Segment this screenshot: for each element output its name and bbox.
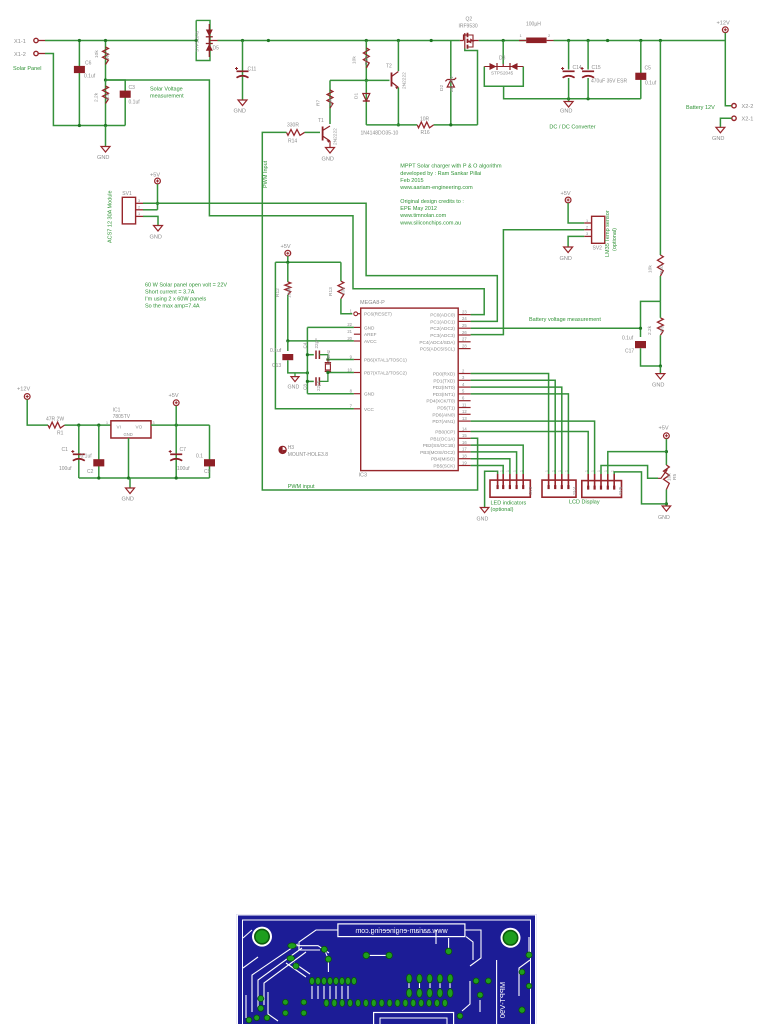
- svg-text:14: 14: [462, 426, 467, 431]
- svg-text:C9: C9: [204, 469, 211, 475]
- capacitor C8: [307, 380, 313, 382]
- svg-text:GND: GND: [652, 383, 664, 389]
- svg-text:GND: GND: [322, 157, 334, 163]
- svg-text:D3: D3: [499, 56, 506, 62]
- svg-text:PD3(INT1): PD3(INT1): [433, 392, 456, 397]
- svg-text:C1: C1: [62, 447, 69, 453]
- resistor R15: [365, 41, 367, 81]
- svg-text:PB6(XTAL1/TOSC1): PB6(XTAL1/TOSC1): [364, 358, 407, 363]
- svg-text:1: 1: [138, 212, 140, 216]
- svg-text:100µH: 100µH: [526, 22, 541, 28]
- svg-text:Short current = 3.7A: Short current = 3.7A: [145, 290, 195, 296]
- wire IC1 gnd: [128, 438, 130, 478]
- svg-text:X1-1: X1-1: [14, 39, 26, 45]
- svg-text:13: 13: [462, 416, 467, 421]
- svg-text:PD1(TXD): PD1(TXD): [433, 378, 455, 383]
- svg-text:23: 23: [462, 309, 467, 314]
- svg-text:PC1(ADC1): PC1(ADC1): [430, 319, 455, 324]
- connector X1-1: [34, 38, 38, 42]
- svg-text:1: 1: [558, 470, 562, 472]
- connector SV5 LCD B: [582, 481, 622, 498]
- svg-text:PC5(ADC5/SCL): PC5(ADC5/SCL): [420, 347, 456, 352]
- svg-text:2.2k: 2.2k: [94, 92, 100, 102]
- svg-text:PB0(ICP): PB0(ICP): [435, 430, 455, 435]
- svg-text:1: 1: [506, 470, 510, 472]
- svg-text:GND: GND: [364, 392, 375, 397]
- resistor R7: [329, 80, 331, 124]
- svg-text:X2-1: X2-1: [742, 117, 754, 123]
- wire ADC2 net: [471, 327, 641, 329]
- capacitor C5: [640, 41, 642, 99]
- svg-text:PD4(XCK/T0): PD4(XCK/T0): [426, 399, 455, 404]
- svg-text:GND: GND: [364, 325, 375, 330]
- svg-text:Q2: Q2: [466, 16, 473, 22]
- ground dcdc: [568, 99, 570, 102]
- diode D1: [365, 80, 367, 125]
- wire pin8 gnd: [307, 393, 354, 395]
- connector X2-1: [732, 116, 736, 120]
- svg-text:R15: R15: [364, 56, 370, 65]
- svg-text:2: 2: [586, 226, 588, 230]
- svg-text:100uf: 100uf: [177, 466, 190, 472]
- wire R13 to reset pin1: [341, 299, 352, 314]
- svg-text:PB1(OC1A): PB1(OC1A): [430, 436, 455, 441]
- svg-text:So the max amp=7.4A: So the max amp=7.4A: [145, 304, 200, 310]
- wire +5V to R5: [665, 439, 667, 465]
- svg-text:+5V: +5V: [169, 393, 179, 399]
- svg-text:PC3(ADC3): PC3(ADC3): [430, 333, 455, 338]
- wire SV1 pin2: [143, 209, 158, 211]
- svg-text:SV5: SV5: [618, 486, 623, 495]
- resistor R14: [305, 131, 321, 133]
- resistor R16: [417, 122, 433, 128]
- wire PD2 to LCD: [471, 387, 562, 474]
- svg-text:IRF9530: IRF9530: [459, 23, 478, 29]
- svg-text:R20: R20: [659, 265, 665, 274]
- svg-text:25: 25: [462, 323, 467, 328]
- svg-text:2.2k: 2.2k: [647, 325, 653, 335]
- capacitor C17: [635, 341, 646, 348]
- svg-text:10: 10: [347, 367, 352, 372]
- svg-text:22pF: 22pF: [314, 338, 319, 349]
- suppressor D5: [196, 20, 210, 60]
- zener D2: [450, 41, 452, 125]
- svg-text:1: 1: [494, 470, 498, 472]
- svg-text:20: 20: [347, 336, 352, 341]
- wire PD0 to LCD: [471, 374, 549, 475]
- svg-text:26: 26: [462, 330, 467, 335]
- svg-text:MOUNT-HOLE3.8: MOUNT-HOLE3.8: [288, 452, 329, 458]
- svg-text:(optional): (optional): [612, 228, 618, 251]
- wire PWM net: [262, 132, 477, 490]
- svg-text:Battery 12V: Battery 12V: [686, 105, 715, 111]
- svg-text:1: 1: [584, 470, 588, 472]
- svg-text:STPS2045: STPS2045: [491, 71, 514, 76]
- connector SV1: [122, 197, 135, 224]
- svg-text:PD6(AIN0): PD6(AIN0): [432, 412, 455, 417]
- svg-text:10k: 10k: [666, 473, 672, 481]
- MEGA8 right pins: [458, 314, 470, 316]
- wire battery sense: [659, 41, 661, 256]
- svg-text:C6: C6: [85, 61, 92, 67]
- svg-text:(optional): (optional): [491, 507, 514, 513]
- svg-text:1: 1: [545, 470, 549, 472]
- svg-text:PC0(ADC0): PC0(ADC0): [430, 313, 455, 318]
- svg-text:GND: GND: [124, 432, 133, 437]
- capacitor C9: [209, 425, 211, 478]
- potentiometer R5: [664, 465, 670, 490]
- svg-text:Solar Voltage: Solar Voltage: [150, 87, 183, 93]
- wire net ADC0: [106, 80, 485, 315]
- svg-text:www.aariam-engineering.com: www.aariam-engineering.com: [355, 928, 448, 935]
- svg-text:15: 15: [462, 433, 467, 438]
- svg-text:22: 22: [347, 322, 352, 327]
- ground LED: [480, 508, 489, 513]
- svg-text:D5: D5: [213, 46, 220, 52]
- wire VCC left rail: [275, 262, 354, 409]
- svg-text:PD5(T1): PD5(T1): [437, 406, 455, 411]
- wire T2 emitter: [397, 88, 399, 125]
- svg-text:100R: 100R: [287, 286, 293, 298]
- svg-text:24: 24: [462, 316, 467, 321]
- svg-text:IC3: IC3: [359, 473, 368, 479]
- connector X1-2: [34, 51, 38, 55]
- svg-text:1: 1: [551, 470, 555, 472]
- svg-text:PC4(ADC4/SDA): PC4(ADC4/SDA): [419, 340, 455, 345]
- svg-text:H3: H3: [288, 445, 295, 451]
- wire bus 2: [218, 40, 460, 42]
- ground SV2: [564, 247, 573, 253]
- svg-text:10R: 10R: [420, 117, 430, 123]
- svg-text:+5V: +5V: [150, 173, 160, 179]
- wire SV1 pin1 gnd: [143, 216, 158, 225]
- resistor R20: [658, 255, 664, 276]
- svg-text:C8: C8: [303, 384, 308, 390]
- wire battery branch: [725, 41, 731, 106]
- svg-text:www.aariam-engineering.com: www.aariam-engineering.com: [399, 185, 473, 191]
- svg-text:SV4: SV4: [572, 486, 577, 495]
- svg-text:10k: 10k: [341, 287, 347, 295]
- svg-text:0.1uf: 0.1uf: [129, 100, 141, 106]
- transistor T2: [397, 41, 399, 72]
- svg-text:MPPT Solar charger with P & O: MPPT Solar charger with P & O algorithm: [400, 164, 502, 170]
- wire LED gnd jog: [485, 471, 498, 507]
- svg-text:C4: C4: [303, 342, 308, 348]
- svg-text:1: 1: [519, 470, 523, 472]
- wire +5V rail: [287, 256, 289, 262]
- capacitor C13: [287, 341, 289, 351]
- svg-text:0.1uf: 0.1uf: [84, 74, 96, 80]
- svg-text:PC2(ADC2): PC2(ADC2): [430, 326, 455, 331]
- wire output bus: [554, 40, 726, 42]
- svg-text:GND: GND: [477, 517, 489, 523]
- svg-text:17: 17: [462, 447, 467, 452]
- svg-text:X2-2: X2-2: [742, 104, 754, 110]
- ground divider: [105, 126, 107, 147]
- svg-text:0.1: 0.1: [196, 454, 203, 460]
- ground R5: [662, 506, 671, 511]
- svg-text:1: 1: [499, 470, 503, 472]
- svg-text:PB4(MISO): PB4(MISO): [431, 457, 455, 462]
- svg-text:10k: 10k: [94, 50, 100, 58]
- svg-text:1: 1: [106, 421, 108, 425]
- svg-text:R5: R5: [672, 474, 678, 480]
- svg-text:R7: R7: [316, 100, 322, 106]
- svg-text:28: 28: [462, 343, 467, 348]
- svg-text:GND: GND: [712, 136, 724, 142]
- wire PD3 to LCD: [471, 394, 569, 474]
- svg-text:PB2(SS/OC1B): PB2(SS/OC1B): [423, 443, 456, 448]
- resistor R4: [105, 80, 107, 126]
- svg-text:I'm using 2 x 60W panels: I'm using 2 x 60W panels: [145, 297, 207, 303]
- svg-text:SV3: SV3: [528, 486, 533, 495]
- svg-text:D1: D1: [354, 93, 360, 99]
- wire SV2 pin3 gnd: [568, 236, 584, 247]
- svg-text:C14: C14: [573, 65, 582, 71]
- svg-text:PWM Input: PWM Input: [263, 160, 269, 188]
- wire LCD gnd: [614, 472, 666, 504]
- wire pin10: [328, 372, 354, 374]
- svg-text:EPE May 2012: EPE May 2012: [400, 206, 437, 212]
- svg-text:27: 27: [462, 337, 467, 342]
- svg-text:21: 21: [347, 329, 352, 334]
- wire PB5 to LED: [471, 466, 504, 475]
- svg-text:16: 16: [462, 440, 467, 445]
- svg-text:PC6(RESET): PC6(RESET): [364, 312, 392, 317]
- svg-text:0.1uf: 0.1uf: [270, 348, 282, 354]
- node divider: [104, 78, 107, 81]
- svg-text:7805TV: 7805TV: [113, 414, 131, 420]
- svg-text:GND: GND: [122, 497, 134, 503]
- svg-text:VI: VI: [117, 424, 121, 429]
- svg-text:3: 3: [586, 232, 588, 236]
- svg-text:C2: C2: [87, 469, 94, 475]
- svg-text:GND: GND: [97, 155, 109, 161]
- transistor T1: [322, 127, 324, 141]
- svg-text:47R 2W: 47R 2W: [46, 416, 64, 422]
- svg-text:PD0(RXD): PD0(RXD): [433, 372, 456, 377]
- resistor R12: [287, 262, 289, 282]
- svg-text:R12: R12: [275, 288, 281, 297]
- svg-text:+5V: +5V: [281, 244, 291, 250]
- svg-text:+12V: +12V: [717, 20, 730, 26]
- svg-text:0.1uf: 0.1uf: [622, 336, 634, 342]
- svg-text:R2: R2: [105, 53, 111, 59]
- ground reg: [129, 478, 131, 488]
- wire PD1 to LCD: [471, 380, 556, 474]
- wire SV2 pin2 ADC3 net: [471, 230, 585, 335]
- svg-text:2: 2: [138, 206, 140, 210]
- svg-text:R14: R14: [288, 139, 297, 145]
- svg-text:470uF 35V ESR: 470uF 35V ESR: [591, 79, 628, 85]
- capacitor C1: [78, 425, 80, 478]
- svg-text:GND: GND: [234, 109, 246, 115]
- wire +5V to LCD: [608, 452, 667, 474]
- svg-text:PD7(AIN1): PD7(AIN1): [432, 419, 455, 424]
- wire PD7 to LCD2: [471, 421, 595, 474]
- wire PB3 to LED: [471, 452, 517, 474]
- svg-text:T1: T1: [318, 118, 324, 124]
- wire reg bottom rail: [79, 477, 210, 479]
- svg-text:+5V: +5V: [659, 426, 669, 432]
- wire PB2 to LED: [471, 445, 524, 474]
- svg-text:3: 3: [138, 199, 140, 203]
- svg-text:+12V: +12V: [17, 387, 30, 393]
- IC IC3 MEGA8-P: [361, 308, 459, 471]
- wire AVCC net: [288, 340, 354, 342]
- wire PB0 to LCD2: [471, 432, 589, 475]
- svg-text:ZD 18V: ZD 18V: [449, 75, 455, 92]
- svg-text:VO: VO: [136, 424, 143, 429]
- ground divider: [659, 366, 661, 374]
- ground C13: [294, 373, 296, 377]
- PCB layout image: [237, 914, 537, 1024]
- svg-text:R4: R4: [105, 94, 111, 100]
- svg-text:GND: GND: [288, 385, 300, 391]
- svg-text:Original design credits to :: Original design credits to :: [400, 199, 464, 205]
- svg-text:ACS7 12 30A Module: ACS7 12 30A Module: [108, 190, 114, 243]
- node battery divider: [641, 301, 661, 337]
- svg-text:MPPT-V90: MPPT-V90: [498, 982, 507, 1018]
- svg-text:1N4148DO35-10: 1N4148DO35-10: [361, 131, 399, 137]
- svg-text:D2: D2: [439, 85, 445, 91]
- mount hole H3: [279, 446, 286, 453]
- svg-text:1: 1: [586, 219, 588, 223]
- svg-text:T2: T2: [386, 64, 392, 70]
- resistor R1: [48, 422, 65, 428]
- svg-text:1: 1: [513, 470, 517, 472]
- wire SV1 pin3 ADC1 net: [143, 203, 497, 321]
- svg-text:PWM input: PWM input: [288, 484, 315, 490]
- svg-text:developed by : Ram Sankar Pill: developed by : Ram Sankar Pillai: [400, 171, 481, 177]
- svg-text:C3: C3: [129, 85, 136, 91]
- wire +5V to SV1: [157, 184, 159, 210]
- wire +5V SV2: [568, 203, 584, 223]
- wire X1-2 to bottom rail: [45, 54, 125, 126]
- svg-text:PB7(XTAL2/TOSC2): PB7(XTAL2/TOSC2): [364, 371, 407, 376]
- svg-text:X1-2: X1-2: [14, 52, 26, 58]
- svg-text:C7: C7: [180, 447, 187, 453]
- capacitor C3: [106, 80, 126, 126]
- svg-text:2N2222: 2N2222: [333, 128, 339, 145]
- connector SV3 LED indicators: [490, 480, 530, 497]
- pin1 bubble: [354, 312, 358, 316]
- svg-text:www.siliconchips.com.au: www.siliconchips.com.au: [399, 220, 461, 226]
- ground SV1: [154, 226, 163, 232]
- svg-text:16MHz: 16MHz: [326, 349, 331, 364]
- svg-text:10R: 10R: [328, 98, 334, 107]
- wire +5V drop: [175, 406, 177, 425]
- wire T1 emitter gnd: [329, 141, 331, 148]
- svg-text:IC1: IC1: [113, 408, 121, 414]
- connector SV2: [592, 216, 605, 243]
- svg-text:12: 12: [462, 409, 467, 414]
- svg-text:PB3(MOSI/OC2): PB3(MOSI/OC2): [420, 450, 455, 455]
- capacitor C15: [587, 41, 589, 99]
- svg-text:10k: 10k: [352, 56, 358, 64]
- diode D3 assembly: [502, 41, 504, 65]
- svg-text:1: 1: [565, 470, 569, 472]
- capacitor C7: [175, 425, 177, 478]
- IC1 7805: [111, 421, 151, 438]
- ground X2: [716, 127, 725, 133]
- svg-text:LED indicators: LED indicators: [491, 500, 527, 506]
- wire main solar bus: [45, 40, 196, 42]
- svg-text:STPS2045: STPS2045: [195, 30, 200, 52]
- svg-text:18: 18: [462, 454, 467, 459]
- resistor R13: [340, 262, 342, 281]
- svg-text:PB5(SCK): PB5(SCK): [433, 464, 455, 469]
- svg-text:GND: GND: [150, 235, 162, 241]
- svg-text:LM35 Temp sensor: LM35 Temp sensor: [605, 210, 611, 257]
- capacitor C11: [242, 41, 244, 101]
- wire PB4 to LED: [471, 459, 510, 474]
- wire +12V to R1: [27, 400, 48, 426]
- connector X2-2: [732, 104, 736, 108]
- svg-text:GND: GND: [658, 515, 670, 521]
- svg-text:C13: C13: [272, 363, 281, 369]
- capacitor C6: [78, 41, 80, 126]
- svg-text:C11: C11: [248, 67, 257, 73]
- svg-text:C5: C5: [645, 65, 652, 71]
- svg-text:C15: C15: [592, 65, 601, 71]
- wire R5 bottom gnd: [665, 490, 667, 507]
- svg-text:Solar Panel: Solar Panel: [13, 66, 41, 72]
- svg-text:PD2(INT0): PD2(INT0): [433, 385, 456, 390]
- crystal 16MHz: [328, 359, 354, 361]
- capacitor C2: [98, 425, 100, 478]
- svg-text:11: 11: [462, 402, 467, 407]
- svg-text:www.timnolan.com: www.timnolan.com: [399, 213, 446, 219]
- svg-text:2N2222: 2N2222: [402, 72, 408, 89]
- svg-text:measurement: measurement: [150, 94, 184, 100]
- wire IC1 out: [151, 424, 210, 426]
- svg-text:60 W Solar panel open volt = 2: 60 W Solar panel open volt = 22V: [145, 283, 227, 289]
- svg-text:GND: GND: [560, 256, 572, 262]
- wire R1 to IC1: [65, 424, 111, 426]
- svg-text:R16: R16: [421, 130, 430, 136]
- capacitor C14: [568, 41, 570, 99]
- connector SV4 LCD A: [542, 480, 576, 497]
- svg-text:R1: R1: [57, 431, 64, 437]
- svg-text:22pF: 22pF: [316, 380, 321, 391]
- ground C11: [238, 100, 247, 106]
- svg-text:10k: 10k: [648, 265, 654, 273]
- wire mcu gnd vertical: [306, 327, 308, 393]
- svg-text:AVCC: AVCC: [364, 339, 377, 344]
- svg-text:DC / DC Converter: DC / DC Converter: [549, 125, 595, 131]
- wire gate rail: [366, 124, 417, 126]
- svg-text:R6: R6: [660, 326, 666, 332]
- wire D3 gnd rail: [504, 86, 641, 99]
- resistor R2: [105, 41, 107, 81]
- svg-text:Battery voltage measurement: Battery voltage measurement: [529, 317, 601, 323]
- svg-text:Feb 2015: Feb 2015: [400, 178, 423, 184]
- wire LCD contrast: [601, 466, 658, 479]
- svg-text:LCD Display: LCD Display: [569, 500, 600, 506]
- resistor R6: [658, 318, 664, 336]
- svg-text:SV1: SV1: [122, 191, 132, 197]
- capacitor C4: [307, 354, 313, 356]
- svg-text:MEGA8-P: MEGA8-P: [360, 300, 385, 306]
- svg-text:1: 1: [591, 470, 595, 472]
- svg-text:100uf: 100uf: [59, 466, 72, 472]
- svg-text:SV2: SV2: [593, 246, 603, 252]
- wire T2 base rail: [330, 79, 390, 81]
- wire pin22 gnd: [307, 326, 354, 328]
- MEGA8 left pins: [358, 313, 361, 315]
- wire Q2 gate: [465, 49, 478, 125]
